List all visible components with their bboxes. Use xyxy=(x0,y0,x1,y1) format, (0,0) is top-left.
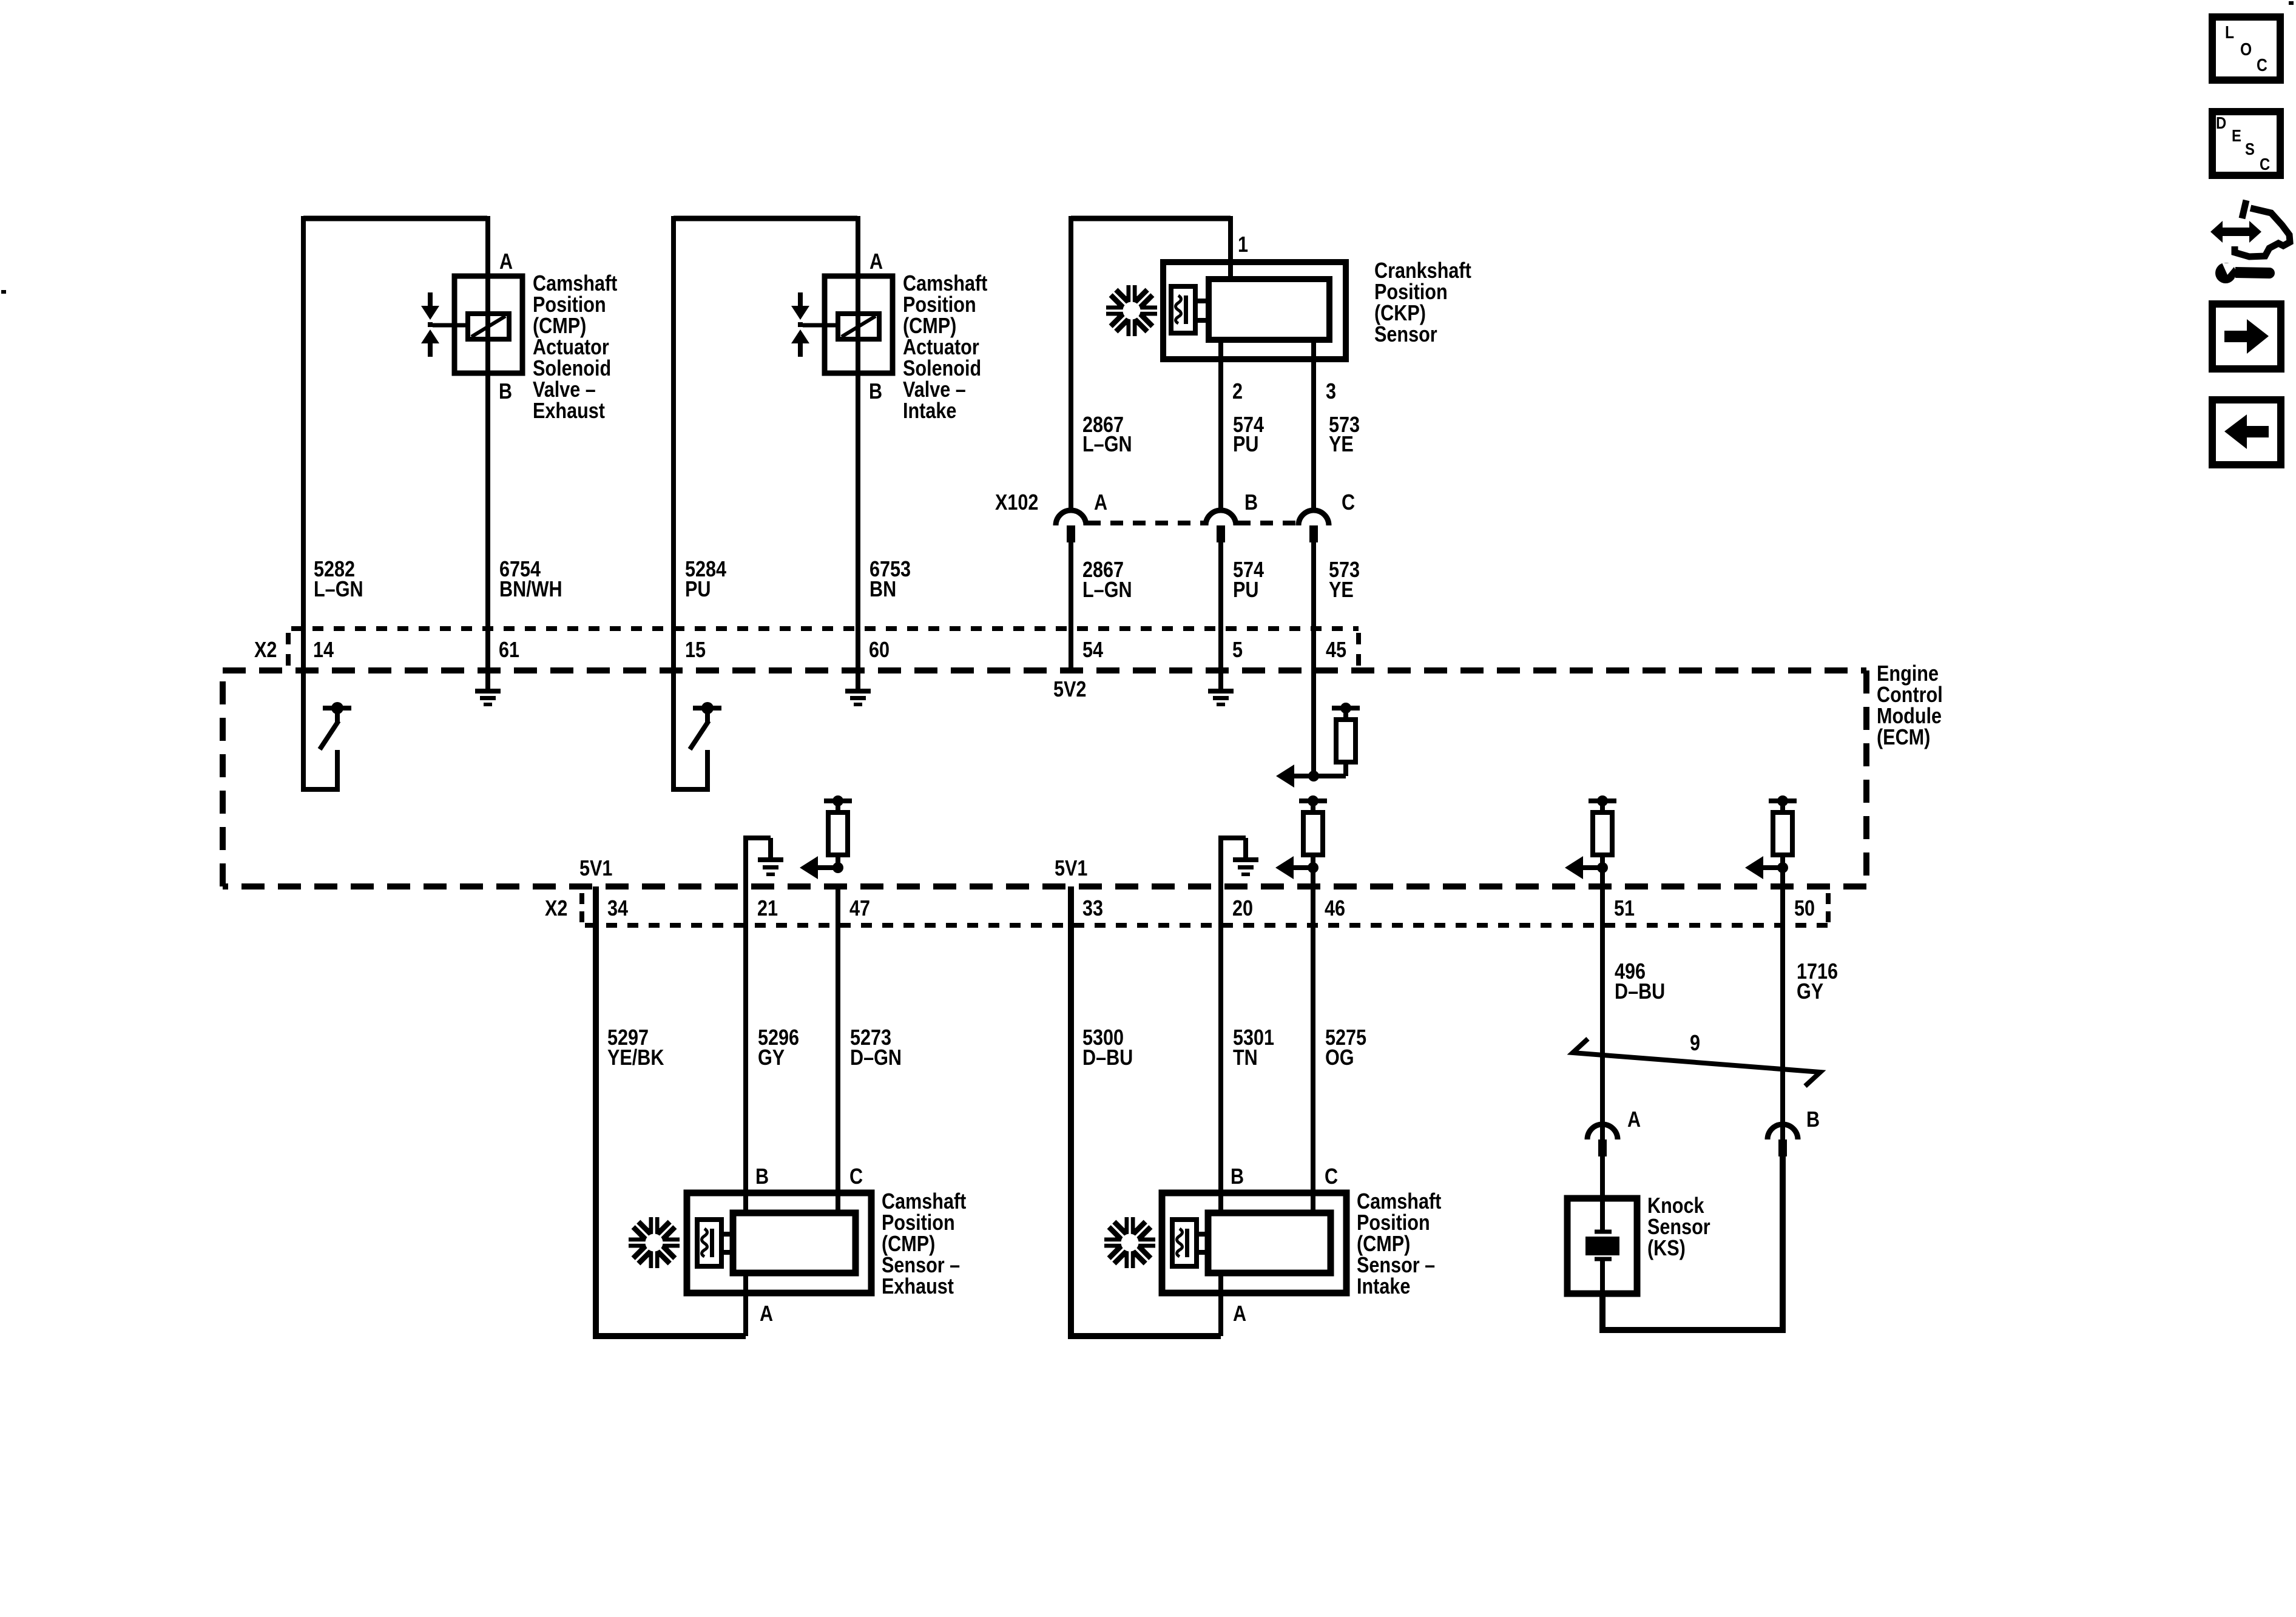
icon back arrow box xyxy=(2212,400,2281,465)
X102 arc C xyxy=(1298,510,1329,525)
wire 5296 GY pin21 xyxy=(743,886,748,1213)
node pin46 junction xyxy=(1308,862,1319,873)
CKP sensor inner body xyxy=(1209,279,1329,340)
wire 574 PU pin5 below X102 xyxy=(1218,542,1223,689)
X102 arc B xyxy=(1206,510,1236,525)
knock sensor KS box xyxy=(1567,1198,1637,1294)
svg-text:BN: BN xyxy=(869,578,896,602)
arrow reference pin50 xyxy=(1745,856,1763,879)
valve symbol V2 xyxy=(798,292,803,306)
X2 upper left end mark xyxy=(286,633,291,644)
svg-text:5V1: 5V1 xyxy=(579,857,612,881)
svg-text:Valve –: Valve – xyxy=(903,378,966,402)
svg-text:47: 47 xyxy=(849,897,870,921)
svg-text:9: 9 xyxy=(1690,1031,1700,1056)
svg-text:21: 21 xyxy=(757,897,778,921)
page margin tick left xyxy=(1,290,6,294)
svg-text:(CMP): (CMP) xyxy=(1357,1232,1410,1257)
svg-text:Position: Position xyxy=(1357,1211,1430,1235)
driver switch for pin 15 xyxy=(671,670,676,789)
wire CKP pin3 vertical xyxy=(1311,340,1316,513)
icon LOC box xyxy=(2212,17,2280,80)
svg-text:D–BU: D–BU xyxy=(1082,1046,1133,1070)
svg-text:61: 61 xyxy=(499,638,519,663)
svg-text:Sensor –: Sensor – xyxy=(882,1254,960,1278)
svg-text:A: A xyxy=(1094,491,1107,515)
svg-text:YE: YE xyxy=(1329,433,1354,457)
svg-text:O: O xyxy=(2240,39,2252,59)
twisted pair marker 9 xyxy=(1573,1039,1820,1086)
ground bracket for pin 20 xyxy=(1218,838,1223,886)
resistor R46 pull-up xyxy=(1299,798,1327,803)
svg-text:Engine: Engine xyxy=(1877,662,1939,686)
wire 5297 YE/BK pin34 xyxy=(596,886,746,1336)
icon diagnostic harness stub bar xyxy=(2242,200,2246,218)
svg-text:34: 34 xyxy=(607,897,628,921)
CKP pickup stubs xyxy=(1195,299,1209,303)
solenoid valve V1 CMP actuator exhaust box xyxy=(454,276,522,373)
svg-text:20: 20 xyxy=(1232,897,1253,921)
wire CKP top rail xyxy=(1071,216,1231,221)
connector X2 upper dotted line xyxy=(291,626,1359,631)
svg-text:5: 5 xyxy=(1232,638,1243,663)
svg-text:(ECM): (ECM) xyxy=(1877,726,1930,750)
valve connector line V1 xyxy=(433,323,468,328)
svg-text:(KS): (KS) xyxy=(1647,1237,1686,1261)
wire 5300 D-BU pin33 xyxy=(1071,886,1221,1336)
CMP exhaust pickup stubs xyxy=(721,1232,733,1237)
wire 1716 GY pin50 lower xyxy=(1780,886,1785,1139)
svg-text:45: 45 xyxy=(1326,638,1346,663)
svg-text:YE/BK: YE/BK xyxy=(607,1046,664,1070)
svg-text:L: L xyxy=(2225,22,2234,42)
arrow reference pin51 xyxy=(1565,856,1583,879)
icon forward arrow box xyxy=(2212,304,2281,369)
wire KS to bottom rail xyxy=(1602,1156,1783,1330)
wire 6754 pin A-B vertical xyxy=(485,216,490,689)
wire pin46 to dashed boundary xyxy=(1311,868,1315,886)
wire CKP left vertical to X102 A xyxy=(1069,216,1073,513)
CKP sensor B3 outer box xyxy=(1163,262,1346,359)
svg-text:B: B xyxy=(869,380,882,404)
svg-text:Module: Module xyxy=(1877,704,1942,729)
svg-text:15: 15 xyxy=(685,638,706,663)
svg-text:C: C xyxy=(1325,1165,1338,1189)
svg-text:Intake: Intake xyxy=(903,399,956,424)
icon diagnostic harness xyxy=(2235,208,2290,257)
wire 5301 TN pin20 xyxy=(1218,886,1223,1213)
ECM dashed enclosure box xyxy=(223,670,1866,886)
svg-text:14: 14 xyxy=(313,638,334,663)
wire 5273 D-GN pin47 xyxy=(836,886,840,1213)
svg-text:Control: Control xyxy=(1877,683,1943,707)
svg-text:Camshaft: Camshaft xyxy=(1357,1190,1441,1214)
svg-text:Actuator: Actuator xyxy=(903,336,979,360)
svg-text:46: 46 xyxy=(1325,897,1345,921)
svg-text:B: B xyxy=(499,380,512,404)
svg-text:(CMP): (CMP) xyxy=(882,1232,935,1257)
svg-text:Position: Position xyxy=(903,293,976,317)
coil V2 xyxy=(838,314,879,339)
X102 terminal A xyxy=(1067,525,1075,542)
CMP intake pickup stubs xyxy=(1197,1232,1208,1237)
resistor R47 pull-up xyxy=(824,798,852,803)
gear icon CKP xyxy=(1105,284,1158,337)
svg-text:Camshaft: Camshaft xyxy=(882,1190,966,1214)
svg-text:Actuator: Actuator xyxy=(533,336,609,360)
svg-text:Position: Position xyxy=(882,1211,955,1235)
ground for pin 61 xyxy=(475,689,501,694)
svg-text:Knock: Knock xyxy=(1647,1194,1704,1218)
knock terminal A xyxy=(1598,1139,1607,1156)
svg-text:5V1: 5V1 xyxy=(1055,857,1087,881)
svg-text:X2: X2 xyxy=(254,638,277,663)
svg-text:A: A xyxy=(760,1302,773,1326)
svg-text:3: 3 xyxy=(1326,380,1336,404)
resistor R45 pull-up xyxy=(1332,706,1360,711)
svg-text:B: B xyxy=(755,1165,769,1189)
svg-text:PU: PU xyxy=(1233,433,1258,457)
svg-text:Exhaust: Exhaust xyxy=(533,399,605,424)
svg-text:GY: GY xyxy=(758,1046,785,1070)
ground for pin 5 xyxy=(1208,689,1234,694)
svg-text:C: C xyxy=(2260,154,2270,174)
svg-text:D–GN: D–GN xyxy=(850,1046,902,1070)
X2 lower left end mark xyxy=(579,893,584,904)
X102 arc A xyxy=(1056,510,1086,525)
wire pin A exhaust xyxy=(743,1273,748,1336)
svg-text:5V2: 5V2 xyxy=(1053,678,1086,702)
svg-text:2: 2 xyxy=(1232,380,1243,404)
CKP pickup element xyxy=(1171,286,1195,333)
svg-text:TN: TN xyxy=(1233,1046,1258,1070)
svg-text:Valve –: Valve – xyxy=(533,378,596,402)
svg-text:B: B xyxy=(1806,1108,1820,1132)
svg-text:Camshaft: Camshaft xyxy=(533,272,617,296)
solenoid valve V2 CMP actuator intake box xyxy=(825,276,893,373)
wire 5282 L-GN pin14 vertical xyxy=(301,216,306,670)
valve connector line V2 xyxy=(803,323,838,328)
svg-text:Position: Position xyxy=(533,293,606,317)
svg-text:D–BU: D–BU xyxy=(1615,980,1665,1004)
gear icon CMP intake xyxy=(1103,1216,1156,1269)
svg-text:PU: PU xyxy=(685,578,711,602)
arrow to 5V1 reference pin46 xyxy=(1275,856,1294,879)
wire circuit1 top rail xyxy=(303,216,487,221)
svg-text:(CMP): (CMP) xyxy=(903,314,956,339)
svg-text:YE: YE xyxy=(1329,578,1354,603)
svg-text:60: 60 xyxy=(869,638,890,663)
svg-text:Exhaust: Exhaust xyxy=(882,1275,954,1299)
wire 6753 pin A-B vertical xyxy=(856,216,860,689)
svg-text:L–GN: L–GN xyxy=(1082,578,1132,603)
wire pin51 to boundary xyxy=(1600,868,1605,886)
CMP sensor exhaust inner body xyxy=(733,1213,856,1273)
X2 lower right end mark xyxy=(1826,893,1831,904)
svg-text:A: A xyxy=(1233,1302,1246,1326)
wire 496 D-BU pin51 lower xyxy=(1600,886,1605,1139)
svg-text:50: 50 xyxy=(1794,897,1815,921)
connector X2 lower dotted line xyxy=(585,923,1828,928)
svg-text:Sensor –: Sensor – xyxy=(1357,1254,1435,1278)
icon DESC box xyxy=(2212,112,2280,175)
svg-text:L–GN: L–GN xyxy=(1082,433,1132,457)
svg-text:33: 33 xyxy=(1082,897,1103,921)
svg-text:1: 1 xyxy=(1238,233,1248,257)
driver switch for pin 14 xyxy=(301,670,306,789)
wire 5275 OG pin46 xyxy=(1311,886,1315,1213)
arrow to 5V1 reference pin47 xyxy=(800,856,818,879)
X102 dashed harness line B-C xyxy=(1238,521,1297,525)
svg-text:E: E xyxy=(2232,126,2241,145)
svg-text:Intake: Intake xyxy=(1357,1275,1410,1299)
knock terminal B xyxy=(1778,1139,1787,1156)
node pin51 junction xyxy=(1597,862,1608,873)
CMP exhaust pickup element xyxy=(697,1220,721,1266)
coil V1 xyxy=(468,314,509,339)
svg-text:Sensor: Sensor xyxy=(1647,1215,1710,1240)
node pin45 junction xyxy=(1308,771,1319,781)
node pin50 junction xyxy=(1777,862,1788,873)
valve symbol V1 xyxy=(428,292,433,306)
svg-text:L–GN: L–GN xyxy=(314,578,363,602)
svg-text:D: D xyxy=(2216,113,2226,132)
X102 terminal B xyxy=(1217,525,1225,542)
page margin tick top right xyxy=(2289,1,2294,5)
wire pin50 to boundary xyxy=(1780,868,1785,886)
svg-text:BN/WH: BN/WH xyxy=(499,578,562,602)
svg-text:51: 51 xyxy=(1614,897,1635,921)
icon diagnostic double arrow xyxy=(2210,221,2261,243)
wire circuit2 top rail xyxy=(674,216,857,221)
node pin47 junction xyxy=(832,862,843,873)
CMP intake pickup element xyxy=(1172,1220,1197,1266)
svg-text:(CKP): (CKP) xyxy=(1374,302,1426,326)
svg-text:S: S xyxy=(2245,139,2255,158)
knock arc A xyxy=(1587,1124,1618,1139)
svg-text:(CMP): (CMP) xyxy=(533,314,586,339)
CMP sensor intake inner body xyxy=(1208,1213,1331,1273)
CMP sensor intake B6 outer box xyxy=(1162,1193,1346,1293)
CMP sensor exhaust B5 outer box xyxy=(687,1193,871,1293)
svg-text:X102: X102 xyxy=(995,491,1038,515)
arrow to 5V2 reference xyxy=(1276,765,1294,788)
svg-text:54: 54 xyxy=(1082,638,1103,663)
X102 dashed harness line A-B xyxy=(1088,521,1204,525)
X102 terminal C xyxy=(1309,525,1318,542)
svg-text:A: A xyxy=(499,250,513,274)
svg-text:B: B xyxy=(1244,491,1258,515)
svg-text:C: C xyxy=(849,1165,863,1189)
svg-text:OG: OG xyxy=(1325,1046,1354,1070)
svg-text:Sensor: Sensor xyxy=(1374,323,1437,347)
wire 2867 L-GN pin54 below X102 xyxy=(1069,542,1073,670)
resistor R50 bias xyxy=(1769,798,1797,803)
svg-text:X2: X2 xyxy=(545,897,567,921)
ground for pin 60 xyxy=(845,689,871,694)
wire terminal A to KS xyxy=(1600,1156,1605,1232)
gear icon CMP exhaust xyxy=(627,1216,681,1269)
wire 573 YE pin45 below X102 xyxy=(1311,542,1316,776)
svg-text:Crankshaft: Crankshaft xyxy=(1374,259,1471,283)
resistor R51 bias xyxy=(1589,798,1616,803)
svg-text:B: B xyxy=(1231,1165,1244,1189)
wire pin A intake xyxy=(1218,1273,1223,1336)
svg-text:C: C xyxy=(2257,55,2267,75)
svg-text:A: A xyxy=(1627,1108,1641,1132)
wire CKP pin2 vertical xyxy=(1218,340,1223,513)
svg-text:C: C xyxy=(1342,491,1355,515)
ground bracket for pin 21 xyxy=(743,838,748,886)
X2 upper right end mark xyxy=(1356,633,1361,644)
icon wrench xyxy=(2235,267,2275,279)
wire 5284 PU pin14 vertical xyxy=(671,216,676,670)
svg-text:PU: PU xyxy=(1233,578,1258,603)
svg-text:Camshaft: Camshaft xyxy=(903,272,987,296)
knock arc B xyxy=(1768,1124,1798,1139)
svg-text:GY: GY xyxy=(1797,980,1823,1004)
svg-text:Position: Position xyxy=(1374,280,1448,305)
svg-text:Solenoid: Solenoid xyxy=(533,357,611,381)
svg-text:A: A xyxy=(869,250,883,274)
KS piezo element xyxy=(1595,1230,1612,1234)
svg-text:Solenoid: Solenoid xyxy=(903,357,981,381)
wire CKP pin1 vertical xyxy=(1228,216,1233,279)
